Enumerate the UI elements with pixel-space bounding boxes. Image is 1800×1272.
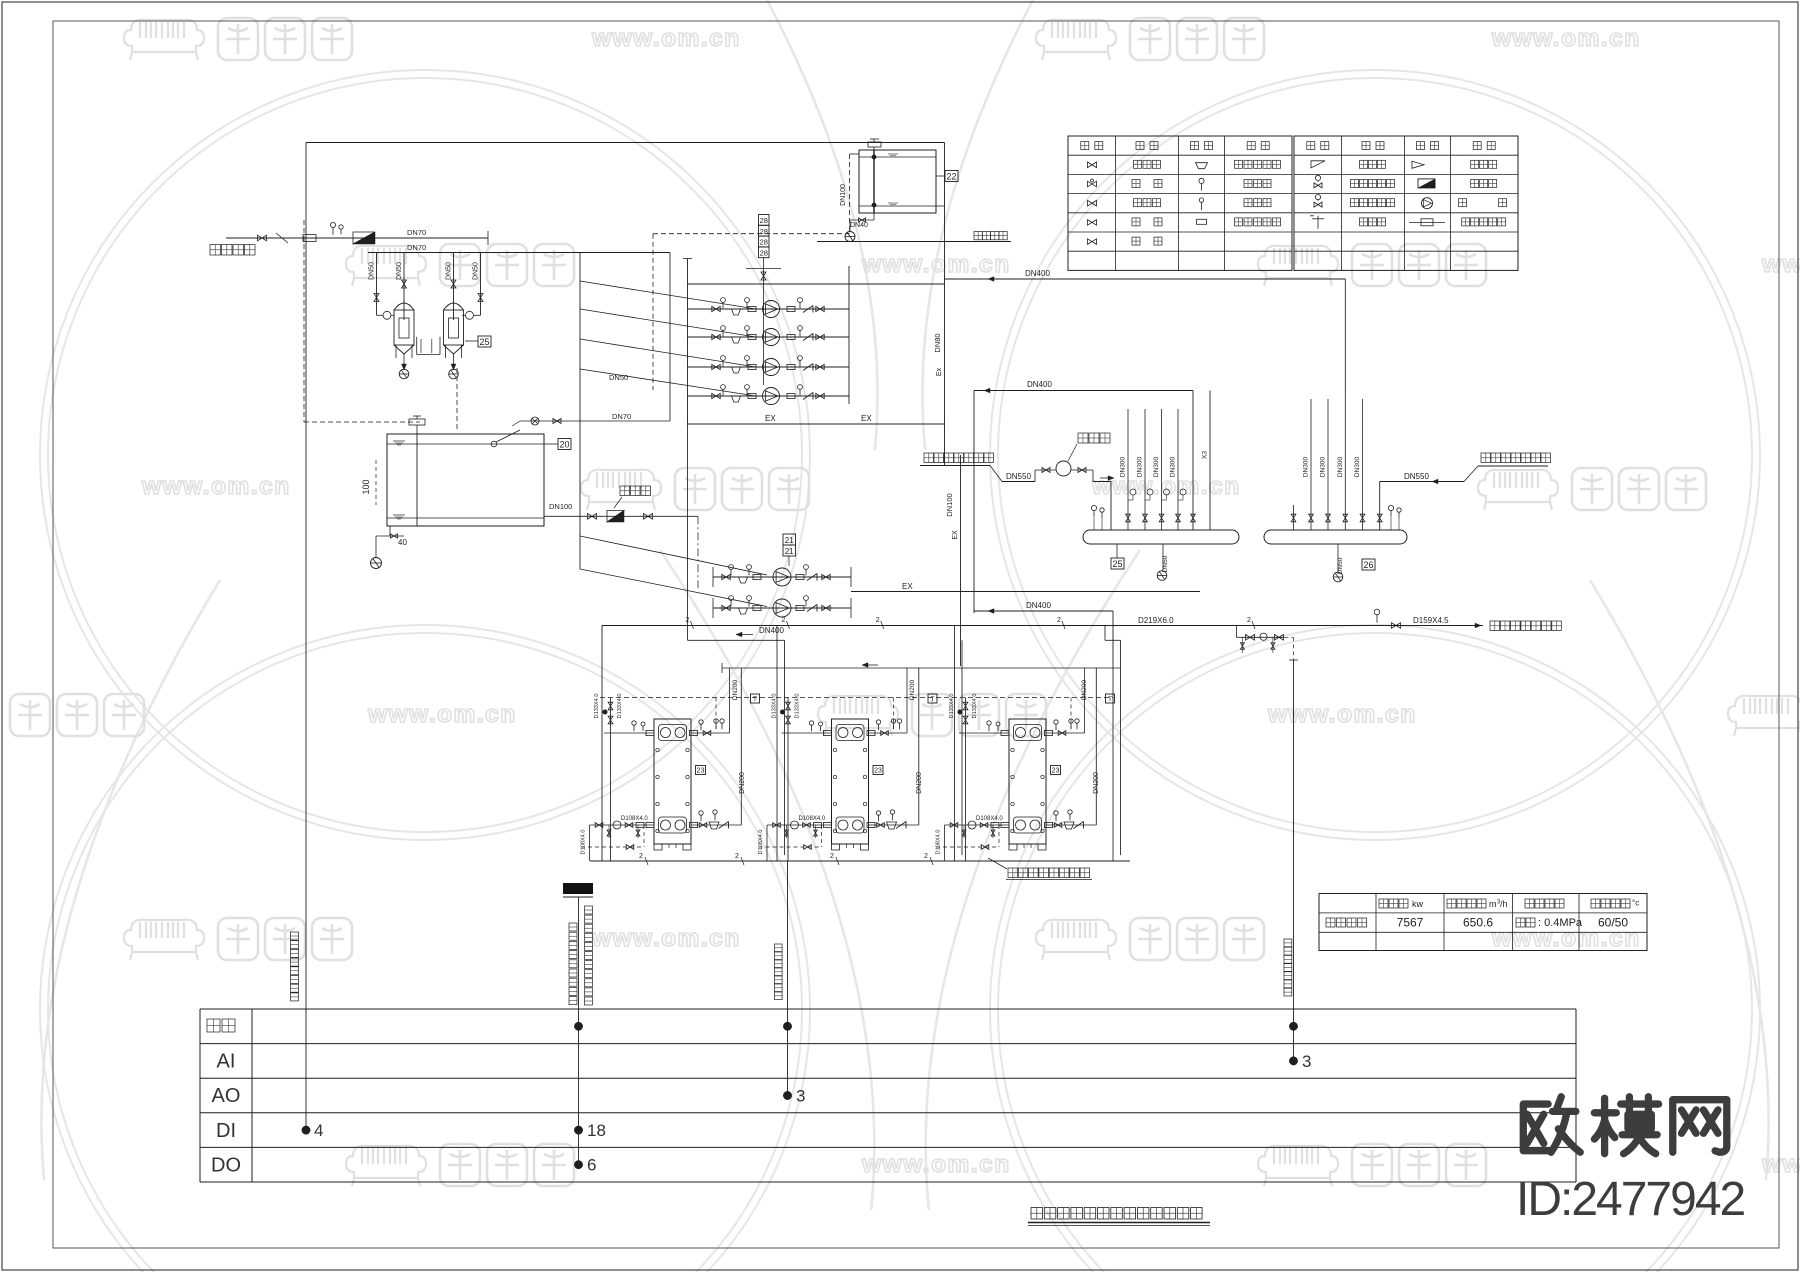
collector header H2 xyxy=(1264,530,1407,544)
svg-text:DN50: DN50 xyxy=(609,373,628,382)
label boxes 21 21 xyxy=(783,534,796,545)
svg-text:2: 2 xyxy=(1247,617,1251,624)
svg-text:DN40: DN40 xyxy=(850,222,868,229)
row label 电源 xyxy=(207,1019,220,1032)
signal label 启停控制手自动状态 xyxy=(585,906,593,914)
signal line tank level alarm xyxy=(305,143,307,1131)
HX1 DN200 riser xyxy=(740,668,742,825)
EX DN100 drop line xyxy=(960,455,962,666)
HX steam distribution line xyxy=(722,667,1121,669)
heat exchanger HX3 xyxy=(1009,719,1046,844)
to hot water exchange station xyxy=(988,858,1007,869)
svg-text:25: 25 xyxy=(479,337,489,347)
svg-text:DN100: DN100 xyxy=(840,184,847,206)
svg-text:www.om.cn: www.om.cn xyxy=(1761,251,1800,278)
HX3 primary top piping xyxy=(959,732,1009,734)
data table header 一次热媒 xyxy=(1525,899,1534,908)
signal line pumps xyxy=(578,897,580,1165)
svg-text:DN100: DN100 xyxy=(945,493,954,516)
steam source label 接市政蒸汽管网 xyxy=(1490,621,1500,631)
label stack 28 xyxy=(759,215,770,226)
svg-text:28: 28 xyxy=(760,227,768,236)
svg-text:D108X4.0: D108X4.0 xyxy=(936,830,942,855)
watermark logo 欧模网 xyxy=(1523,1097,1726,1154)
svg-text:21: 21 xyxy=(785,536,794,545)
sloped feed lines xyxy=(580,281,756,309)
svg-text:T: T xyxy=(931,696,935,703)
HX vertical risers xyxy=(601,626,603,862)
svg-text:DN300: DN300 xyxy=(1137,456,1144,477)
svg-text:60/50: 60/50 xyxy=(1598,916,1628,930)
svg-text:DN50: DN50 xyxy=(473,262,480,280)
secondary pump row 2 xyxy=(713,607,851,609)
tank level sensor link xyxy=(491,441,497,447)
HX3 label box 23 xyxy=(1051,766,1061,775)
HX2 label box 23 xyxy=(873,766,883,775)
svg-text:DN400: DN400 xyxy=(1025,269,1050,278)
funnel between filters xyxy=(416,337,418,355)
svg-text:23: 23 xyxy=(1052,767,1060,774)
HX2 steam inlet train xyxy=(787,698,789,734)
steam valve xyxy=(1392,623,1401,629)
steam PRV bypass xyxy=(1235,626,1237,638)
svg-text:DN400: DN400 xyxy=(1026,601,1051,610)
svg-text:D108X4.0: D108X4.0 xyxy=(799,816,826,822)
svg-text:7567: 7567 xyxy=(1397,916,1424,930)
tank water level marks xyxy=(393,440,405,442)
HX1 steam inlet train xyxy=(610,698,612,734)
svg-text:100: 100 xyxy=(361,479,371,494)
legend table right xyxy=(1294,136,1518,270)
HX dashed steam header xyxy=(600,697,1113,699)
supply main 冷冻水总供水管 xyxy=(1379,482,1381,531)
supply pipe 接供水管 xyxy=(210,245,221,256)
svg-text:AO: AO xyxy=(212,1085,241,1107)
svg-text:www.om.cn: www.om.cn xyxy=(1491,25,1641,52)
signal label 一次水水阀调节 xyxy=(775,944,783,952)
signal line primary valve control xyxy=(787,861,789,1096)
filter tank F2 xyxy=(444,303,464,310)
dashed control link left xyxy=(303,220,305,422)
HX2 primary top piping xyxy=(782,732,832,734)
drop to header1 xyxy=(1110,482,1112,531)
tank outlet DN100 xyxy=(544,515,698,517)
strainer on supply xyxy=(353,232,375,244)
svg-text:28: 28 xyxy=(760,216,768,225)
svg-text:DN50: DN50 xyxy=(446,262,453,280)
roof tank outlet xyxy=(936,205,945,207)
svg-text:www.om.cn: www.om.cn xyxy=(591,25,741,52)
DN400 secondary segments xyxy=(687,626,689,641)
H2 risers DN300 xyxy=(1310,399,1312,530)
svg-text:2: 2 xyxy=(924,853,928,860)
svg-text:2: 2 xyxy=(782,617,786,624)
roof tank feed dashed xyxy=(849,154,851,234)
HX2 DN200 riser xyxy=(918,668,920,825)
svg-text:DI: DI xyxy=(216,1120,236,1142)
svg-text:X3: X3 xyxy=(1202,451,1209,459)
svg-text:DN300: DN300 xyxy=(1303,456,1310,477)
svg-text:DN300: DN300 xyxy=(1153,456,1160,477)
svg-text:www.om.cn: www.om.cn xyxy=(861,1151,1011,1178)
svg-text:DN80: DN80 xyxy=(933,333,942,352)
svg-text:D133X4.0: D133X4.0 xyxy=(795,694,801,719)
makeup line to lower circuit xyxy=(520,420,670,422)
svg-text:650.6: 650.6 xyxy=(1463,916,1493,930)
right riser EX DN80 xyxy=(944,143,946,467)
filter gauges xyxy=(383,311,391,319)
svg-text:m: m xyxy=(1489,899,1497,909)
pump bank top header xyxy=(688,283,945,285)
roof line 六层屋面 xyxy=(974,232,982,240)
svg-text:D133X4.0: D133X4.0 xyxy=(594,694,600,719)
svg-text:23: 23 xyxy=(697,767,705,774)
svg-text:28: 28 xyxy=(760,249,768,258)
svg-text:T: T xyxy=(753,696,757,703)
H1 drops xyxy=(1116,544,1118,558)
HX3 condensate line xyxy=(936,846,999,848)
HX1 label box 23 xyxy=(696,766,706,775)
degasser bypass 脱气机 xyxy=(1034,470,1036,482)
drawing title 商场空调热水系统自控原理图 xyxy=(1031,1208,1043,1220)
dashed link to roof tank xyxy=(653,233,850,235)
label box 25 filters xyxy=(478,336,491,347)
DN400 line to supply header xyxy=(945,278,1346,280)
svg-text:D108X4.0: D108X4.0 xyxy=(621,816,648,822)
svg-text:D108X4.0: D108X4.0 xyxy=(976,816,1003,822)
svg-text:DN300: DN300 xyxy=(1120,456,1127,477)
svg-text:DN70: DN70 xyxy=(407,228,426,237)
svg-text:www.om.cn: www.om.cn xyxy=(1091,473,1241,500)
HX3 T box xyxy=(1106,694,1115,703)
data cell 蒸汽0.4MPa xyxy=(1516,918,1525,927)
svg-text:www.om.cn: www.om.cn xyxy=(141,473,291,500)
svg-text:25: 25 xyxy=(1112,559,1122,569)
svg-text:D159X4.5: D159X4.5 xyxy=(1413,616,1449,625)
roof tank float xyxy=(868,142,881,147)
svg-text:DN50: DN50 xyxy=(369,262,376,280)
water tank body xyxy=(387,434,544,526)
heat data table xyxy=(1319,894,1647,951)
svg-text:2: 2 xyxy=(735,853,739,860)
HX2 T box xyxy=(928,694,937,703)
svg-text:DN100: DN100 xyxy=(549,502,572,511)
pump bank supply risers xyxy=(579,253,581,570)
svg-text:DN300: DN300 xyxy=(1320,456,1327,477)
heat exchanger HX1 xyxy=(654,719,691,844)
svg-text:DN300: DN300 xyxy=(1170,456,1177,477)
svg-text:D133X4.0: D133X4.0 xyxy=(617,694,623,719)
H1 vertical riser right xyxy=(1209,391,1211,531)
signal label 商家空位低液位报警 xyxy=(291,932,299,940)
secondary pumps sloped feeds xyxy=(580,536,767,575)
svg-text:EX: EX xyxy=(902,582,913,591)
svg-text:www.om.cn: www.om.cn xyxy=(1267,701,1417,728)
svg-text:DN300: DN300 xyxy=(1354,456,1361,477)
signal label 二次水水温监测 xyxy=(1284,939,1292,947)
svg-text:DO: DO xyxy=(211,1154,241,1176)
condensate collect line 2 xyxy=(590,860,1130,862)
svg-text:DN550: DN550 xyxy=(1006,472,1031,481)
svg-text:/h: /h xyxy=(1500,899,1508,909)
svg-text:AI: AI xyxy=(217,1051,236,1073)
svg-text:D108X4.0: D108X4.0 xyxy=(758,830,764,855)
svg-text:T: T xyxy=(1108,696,1112,703)
filter tank F1 xyxy=(394,303,414,310)
svg-text:D133X4.0: D133X4.0 xyxy=(972,694,978,719)
svg-text:28: 28 xyxy=(760,238,768,247)
HX2 primary return riser xyxy=(787,733,789,861)
pump row 1 xyxy=(688,308,850,310)
svg-text:EX: EX xyxy=(952,530,959,540)
svg-text:DN300: DN300 xyxy=(1337,456,1344,477)
HX3 primary return riser xyxy=(965,733,967,861)
H1 left gauges xyxy=(1091,505,1096,510)
svg-text:DN70: DN70 xyxy=(612,412,631,421)
HX2 condensate line xyxy=(759,846,822,848)
svg-text:ID:2477942: ID:2477942 xyxy=(1516,1173,1745,1226)
svg-text:EX: EX xyxy=(861,414,872,423)
svg-text:kw: kw xyxy=(1412,899,1424,909)
outlet strainer flow xyxy=(607,511,624,523)
HX1 condensate line xyxy=(581,846,644,848)
data table header 二次热媒 xyxy=(1591,899,1600,908)
svg-text:www.om.cn: www.om.cn xyxy=(591,925,741,952)
HX1 primary top piping xyxy=(604,732,654,734)
H1 risers DN300 xyxy=(1127,409,1129,530)
HX1 drain valves xyxy=(607,830,611,836)
steam gauge xyxy=(1374,609,1380,615)
svg-text:20: 20 xyxy=(559,439,569,449)
svg-text:DN400: DN400 xyxy=(759,626,784,635)
svg-text:: 0.4MPa: : 0.4MPa xyxy=(1538,917,1583,929)
svg-text:3: 3 xyxy=(796,1087,805,1106)
secondary pump row 1 xyxy=(713,576,851,578)
label box 20 xyxy=(558,439,571,450)
tank drain xyxy=(389,526,391,536)
heat exchanger HX2 xyxy=(832,719,869,844)
svg-text:DN50: DN50 xyxy=(1162,555,1169,572)
svg-text:DN200: DN200 xyxy=(1081,679,1088,700)
svg-text:DN200: DN200 xyxy=(1093,772,1100,794)
svg-text:DN400: DN400 xyxy=(1027,380,1052,389)
steam main D219X6.0 xyxy=(602,625,1483,627)
svg-text:Ex: Ex xyxy=(936,367,943,376)
lower DN400 line xyxy=(974,610,1113,612)
svg-text:www.om.cn: www.om.cn xyxy=(367,701,517,728)
label box 22 xyxy=(936,175,945,177)
svg-text:DN200: DN200 xyxy=(909,679,916,700)
HX3 drain valves xyxy=(962,830,966,836)
svg-text:D108X4.0: D108X4.0 xyxy=(581,830,587,855)
signal label 运行状态故障报警 xyxy=(569,923,577,931)
svg-text:26: 26 xyxy=(1363,560,1373,570)
svg-text:DN200: DN200 xyxy=(739,772,746,794)
svg-text:40: 40 xyxy=(398,538,407,547)
svg-text:EX: EX xyxy=(765,414,776,423)
svg-text:DN550: DN550 xyxy=(1404,472,1429,481)
EX return line below pumps xyxy=(688,423,945,425)
svg-text:21: 21 xyxy=(785,547,794,556)
signal line secondary temp monitor xyxy=(1293,660,1295,1061)
svg-text:23: 23 xyxy=(874,767,882,774)
IO signal table xyxy=(200,1008,1576,1010)
legend table left xyxy=(1068,136,1292,270)
svg-text:18: 18 xyxy=(587,1121,606,1140)
svg-text:DN50: DN50 xyxy=(396,262,403,280)
HX3 DN200 riser xyxy=(1095,668,1097,825)
roof tank drain DN40 xyxy=(873,213,875,220)
roof expansion tank xyxy=(859,150,936,213)
flowmeter label 流量计 xyxy=(620,486,630,496)
svg-text:www.om.cn: www.om.cn xyxy=(861,251,1011,278)
HX1 T box xyxy=(751,694,760,703)
svg-text:2: 2 xyxy=(1057,617,1061,624)
makeup dashdot drop to pumps xyxy=(697,516,699,590)
collector header H1 xyxy=(1083,530,1239,544)
svg-text:D219X6.0: D219X6.0 xyxy=(1138,616,1174,625)
HX3 steam inlet train xyxy=(965,698,967,734)
data table header 耗热量kw xyxy=(1379,899,1388,908)
svg-text:2: 2 xyxy=(830,853,834,860)
svg-text:2: 2 xyxy=(876,617,880,624)
riser DN50 group xyxy=(376,253,378,316)
EX line from secondary pumps xyxy=(851,591,1200,593)
svg-text:4: 4 xyxy=(314,1121,323,1140)
HX1 primary return riser xyxy=(610,733,612,861)
svg-text:DN200: DN200 xyxy=(732,679,739,700)
svg-text:22: 22 xyxy=(946,171,956,181)
svg-text:www.om.cn: www.om.cn xyxy=(1761,1151,1800,1178)
tank float switch xyxy=(409,419,425,425)
return main 冷冻水总回水管 xyxy=(924,453,934,463)
svg-text:DN70: DN70 xyxy=(407,243,426,252)
data row 空调热水 xyxy=(1326,918,1335,927)
svg-text:6: 6 xyxy=(587,1156,596,1175)
main enclosure top line xyxy=(306,142,945,144)
junction thick bar xyxy=(563,883,593,894)
H2 right gauges xyxy=(1388,505,1393,510)
svg-text:DN200: DN200 xyxy=(916,772,923,794)
supply branch DN70 lower xyxy=(368,252,670,254)
data table header 设计流量 xyxy=(1447,899,1456,908)
svg-text:3: 3 xyxy=(1302,1052,1311,1071)
svg-text:°c: °c xyxy=(1632,899,1639,908)
HX2 drain valves xyxy=(785,830,789,836)
svg-text:2: 2 xyxy=(639,853,643,860)
H2 drops xyxy=(1337,544,1339,572)
